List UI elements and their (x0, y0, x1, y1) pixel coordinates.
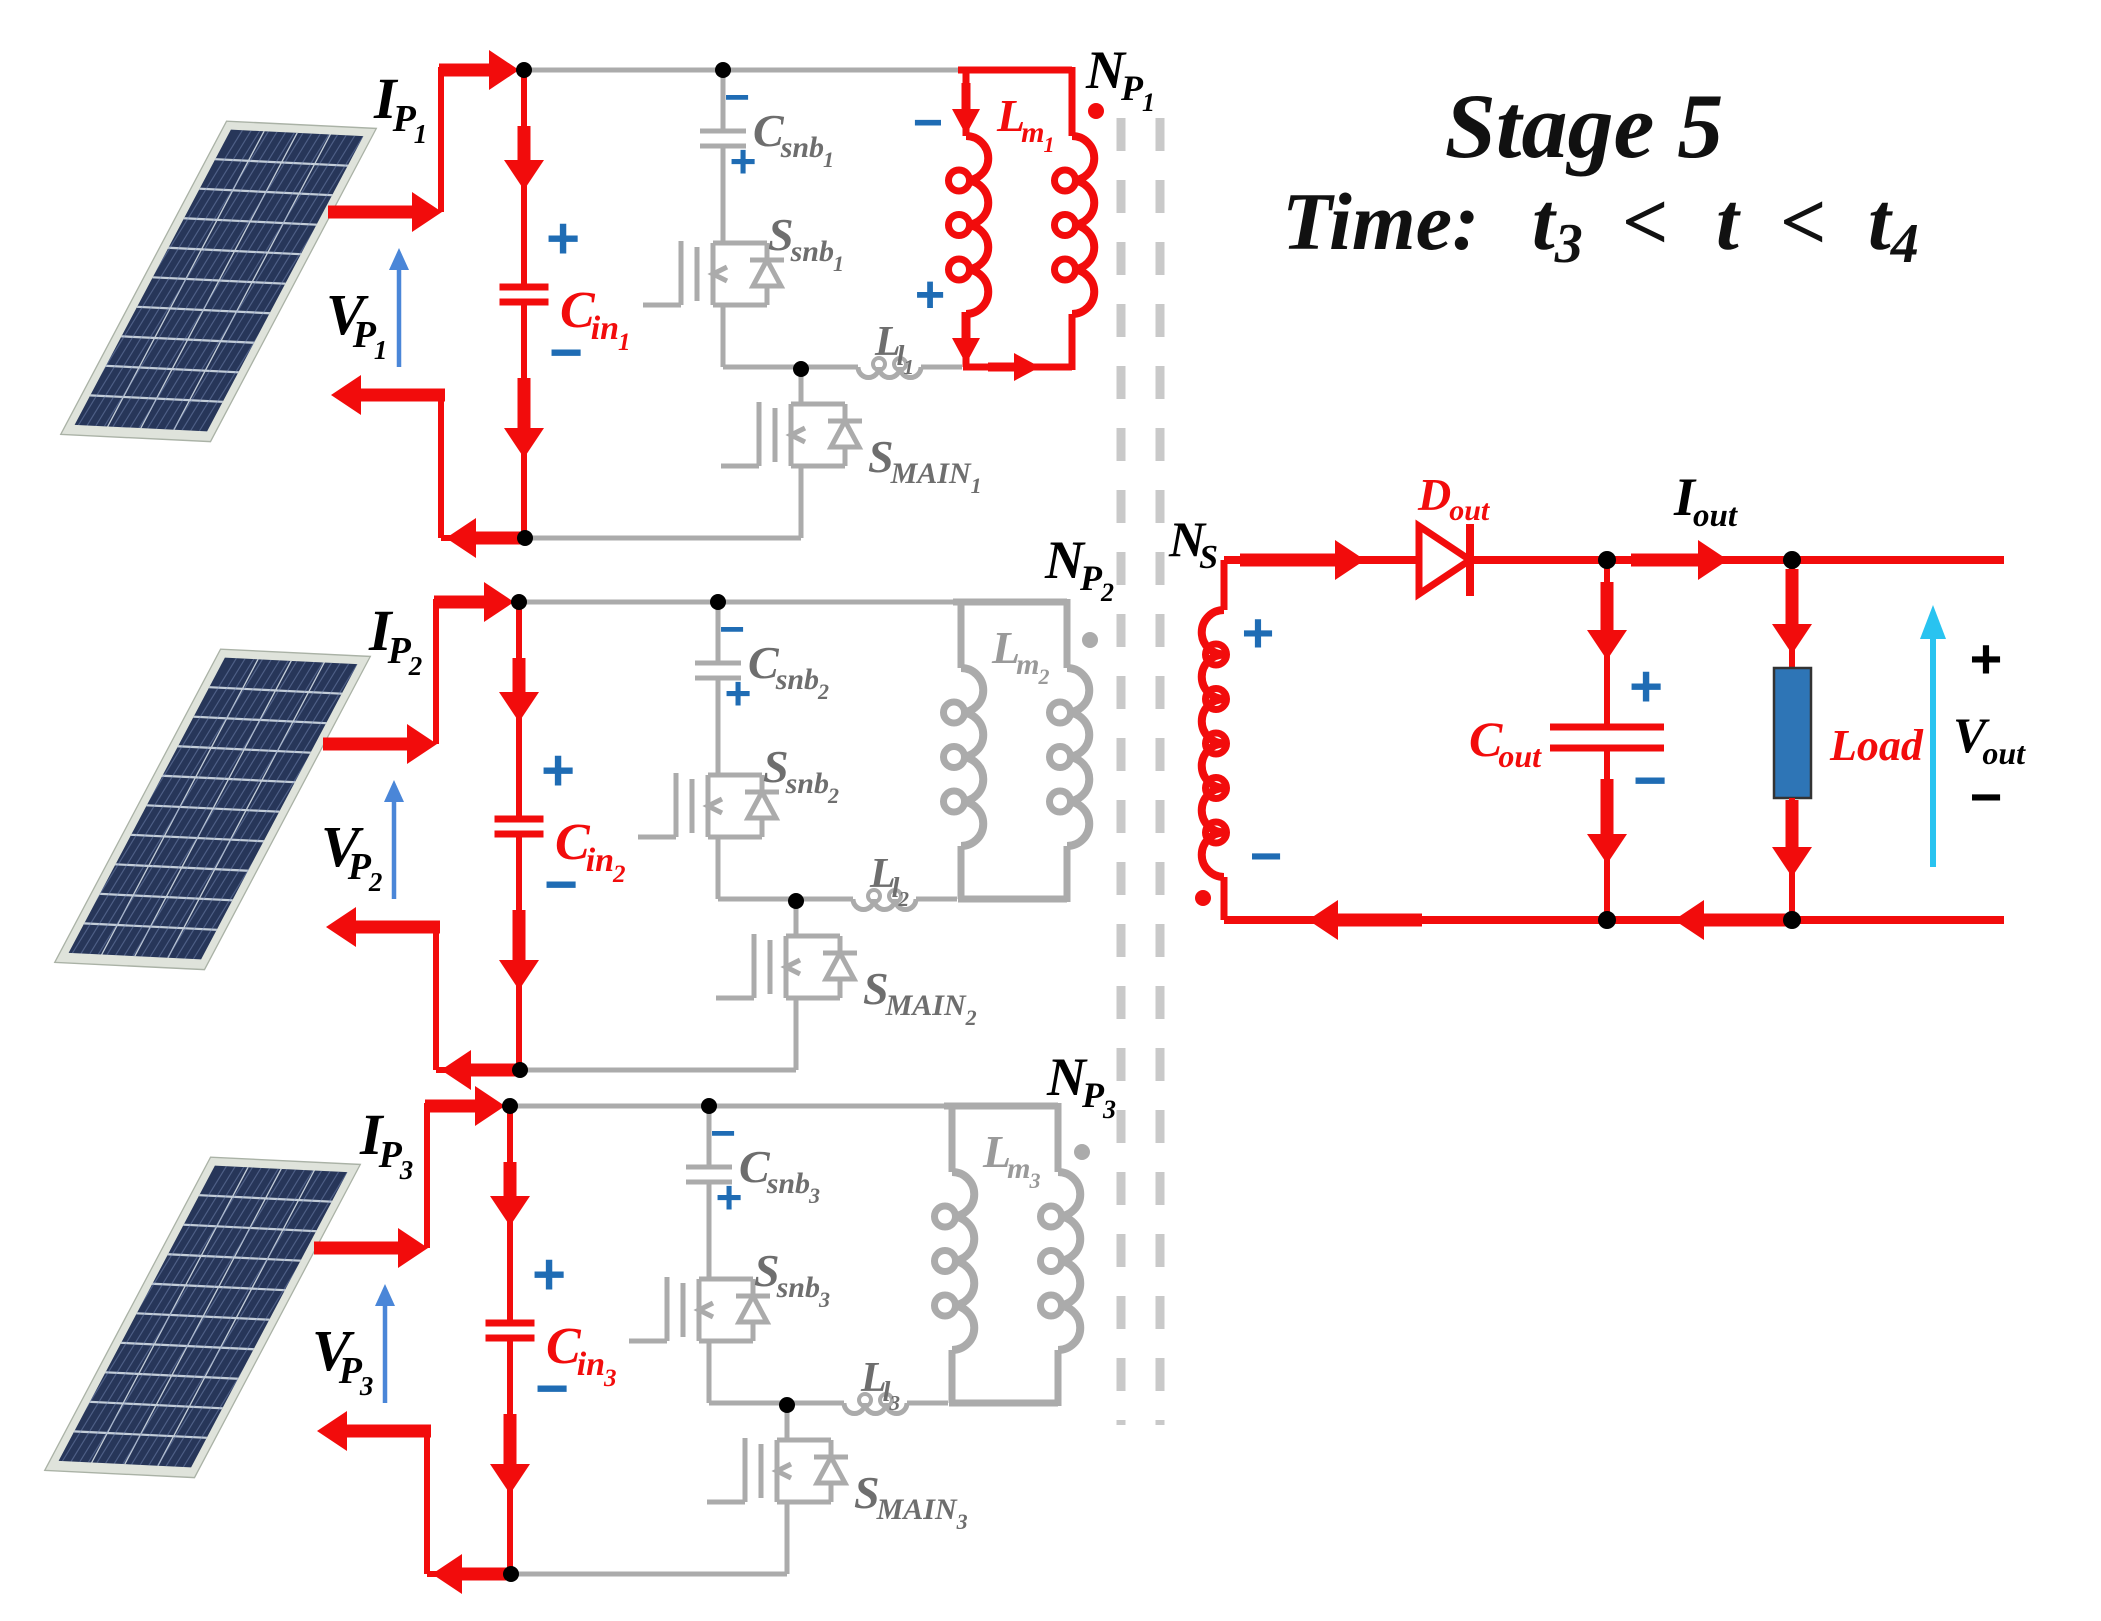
svg-text:−: − (719, 605, 745, 654)
svg-text:+: + (1242, 601, 1275, 664)
svg-text:+: + (541, 738, 575, 803)
svg-text:−: − (913, 94, 943, 152)
svg-text:t: t (1716, 176, 1741, 267)
svg-text:Load: Load (1829, 721, 1924, 770)
svg-text:−: − (1970, 765, 2003, 828)
svg-text:+: + (1629, 654, 1663, 719)
svg-text:<: < (1780, 176, 1827, 267)
svg-text:<: < (1622, 176, 1669, 267)
svg-text:−: − (1250, 824, 1283, 887)
svg-text:−: − (710, 1109, 736, 1158)
svg-text:+: + (915, 266, 945, 324)
svg-text:+: + (532, 1242, 566, 1307)
svg-text:Time:: Time: (1282, 176, 1479, 267)
svg-text:−: − (724, 73, 750, 122)
svg-text:Stage 5: Stage 5 (1445, 75, 1724, 177)
svg-text:+: + (1970, 627, 2003, 690)
svg-text:−: − (1633, 748, 1667, 813)
svg-text:+: + (546, 206, 580, 271)
